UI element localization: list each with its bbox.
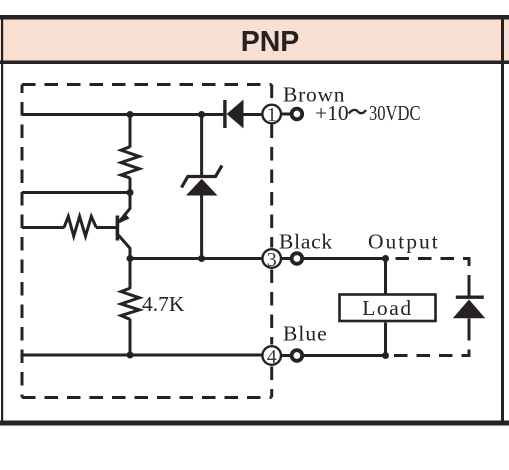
svg-text:PNP: PNP xyxy=(241,26,300,58)
svg-text:30VDC: 30VDC xyxy=(369,101,421,125)
svg-text:3: 3 xyxy=(267,249,277,271)
svg-text:1: 1 xyxy=(267,104,277,126)
svg-text:Load: Load xyxy=(362,296,413,320)
svg-text:4.7K: 4.7K xyxy=(142,292,185,316)
svg-text:+10: +10 xyxy=(315,101,349,125)
svg-text:Black: Black xyxy=(279,230,333,254)
svg-text:Output: Output xyxy=(368,230,440,254)
svg-text:Blue: Blue xyxy=(283,322,328,346)
svg-text:4: 4 xyxy=(267,346,277,368)
